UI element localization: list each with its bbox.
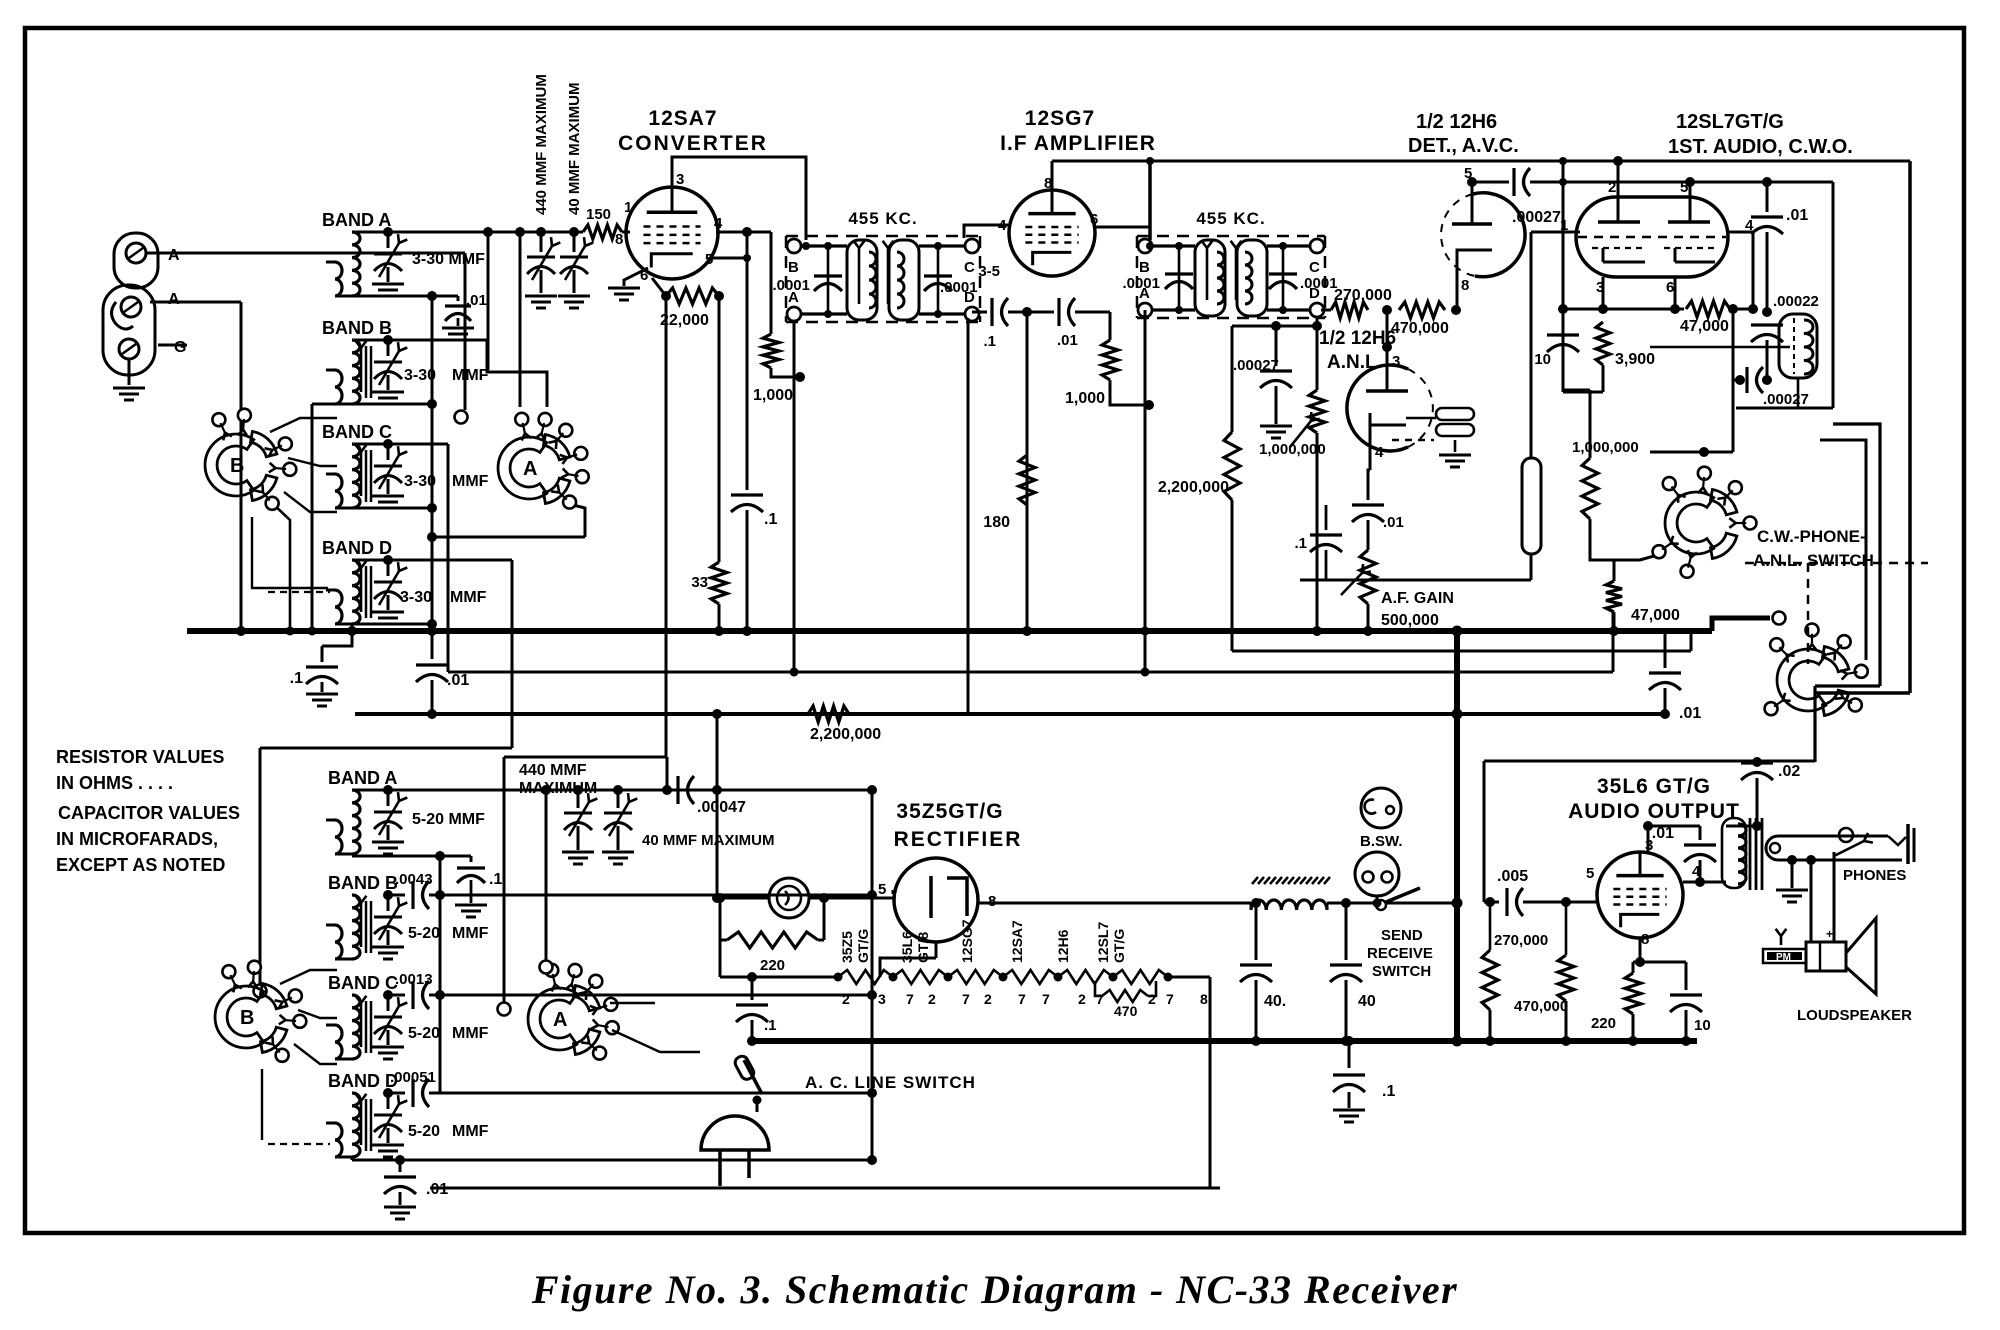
svg-text:.01: .01 bbox=[1679, 705, 1701, 722]
svg-text:2,200,000: 2,200,000 bbox=[810, 726, 881, 743]
svg-text:470,000: 470,000 bbox=[1391, 320, 1449, 337]
svg-text:B: B bbox=[1139, 259, 1150, 276]
svg-text:1/2 12H6: 1/2 12H6 bbox=[1416, 111, 1497, 133]
svg-text:35Z5: 35Z5 bbox=[839, 931, 855, 963]
svg-text:33: 33 bbox=[691, 574, 708, 591]
svg-text:SEND: SEND bbox=[1381, 927, 1423, 944]
svg-text:B: B bbox=[788, 259, 799, 276]
svg-text:DET., A.V.C.: DET., A.V.C. bbox=[1408, 135, 1519, 157]
svg-text:12SL7: 12SL7 bbox=[1095, 922, 1111, 963]
svg-text:B.SW.: B.SW. bbox=[1360, 833, 1403, 850]
svg-text:MMF: MMF bbox=[452, 473, 489, 490]
svg-text:3-5: 3-5 bbox=[978, 263, 1000, 280]
svg-text:440 MMF: 440 MMF bbox=[519, 762, 587, 779]
svg-text:35Z5GT/G: 35Z5GT/G bbox=[896, 800, 1003, 823]
svg-text:500,000: 500,000 bbox=[1381, 612, 1439, 629]
svg-text:LOUDSPEAKER: LOUDSPEAKER bbox=[1797, 1007, 1912, 1024]
svg-text:.0001: .0001 bbox=[940, 279, 978, 296]
svg-text:2: 2 bbox=[984, 991, 992, 1007]
svg-text:BAND D: BAND D bbox=[328, 1071, 398, 1091]
svg-text:A.N.L. SWITCH: A.N.L. SWITCH bbox=[1753, 551, 1874, 570]
svg-text:.1: .1 bbox=[983, 333, 996, 350]
svg-text:5-20 MMF: 5-20 MMF bbox=[412, 811, 485, 828]
svg-text:3: 3 bbox=[676, 171, 684, 188]
svg-text:3-30 MMF: 3-30 MMF bbox=[412, 251, 485, 268]
svg-text:BAND C: BAND C bbox=[322, 422, 392, 442]
svg-text:1/2 12H6: 1/2 12H6 bbox=[1319, 328, 1396, 349]
svg-text:2,200,000: 2,200,000 bbox=[1158, 479, 1229, 496]
svg-text:C: C bbox=[1309, 259, 1320, 276]
svg-text:5: 5 bbox=[878, 881, 886, 898]
svg-text:5: 5 bbox=[1464, 165, 1472, 182]
svg-text:MMF: MMF bbox=[452, 1025, 489, 1042]
svg-text:C: C bbox=[964, 259, 975, 276]
svg-text:7: 7 bbox=[906, 991, 914, 1007]
svg-text:.1: .1 bbox=[489, 871, 502, 888]
svg-text:BAND D: BAND D bbox=[322, 538, 392, 558]
svg-text:220: 220 bbox=[1591, 1015, 1616, 1032]
svg-text:12SG7: 12SG7 bbox=[1025, 107, 1095, 130]
svg-text:A: A bbox=[523, 458, 537, 480]
svg-text:A: A bbox=[168, 291, 180, 308]
svg-text:7: 7 bbox=[1018, 991, 1026, 1007]
svg-text:40.: 40. bbox=[1264, 993, 1286, 1010]
svg-text:7: 7 bbox=[962, 991, 970, 1007]
svg-text:C.W.-PHONE-: C.W.-PHONE- bbox=[1757, 527, 1866, 546]
svg-text:B: B bbox=[230, 455, 244, 477]
svg-text:A. C. LINE SWITCH: A. C. LINE SWITCH bbox=[805, 1073, 976, 1092]
svg-text:.01: .01 bbox=[466, 292, 487, 309]
svg-text:1: 1 bbox=[624, 199, 632, 216]
svg-text:12SA7: 12SA7 bbox=[648, 107, 717, 130]
svg-text:MMF: MMF bbox=[452, 1123, 489, 1140]
svg-text:455 KC.: 455 KC. bbox=[848, 209, 917, 228]
svg-text:4: 4 bbox=[1375, 444, 1384, 461]
svg-text:455 KC.: 455 KC. bbox=[1196, 209, 1265, 228]
svg-text:GT/G: GT/G bbox=[1111, 929, 1127, 963]
svg-text:.00027: .00027 bbox=[1233, 357, 1279, 374]
svg-text:.01: .01 bbox=[1652, 825, 1674, 842]
svg-text:MMF: MMF bbox=[450, 589, 487, 606]
svg-text:CAPACITOR VALUES: CAPACITOR VALUES bbox=[58, 803, 240, 823]
svg-text:180: 180 bbox=[983, 514, 1010, 531]
svg-text:G: G bbox=[174, 339, 186, 356]
svg-text:BAND B: BAND B bbox=[322, 318, 392, 338]
svg-text:8: 8 bbox=[615, 231, 623, 248]
svg-text:MMF: MMF bbox=[452, 367, 489, 384]
svg-text:.1: .1 bbox=[1294, 535, 1307, 552]
svg-text:2: 2 bbox=[928, 991, 936, 1007]
svg-text:.1: .1 bbox=[764, 1017, 777, 1034]
svg-text:12SL7GT/G: 12SL7GT/G bbox=[1676, 111, 1784, 133]
svg-text:MMF: MMF bbox=[452, 925, 489, 942]
svg-text:2: 2 bbox=[842, 991, 850, 1007]
svg-text:BAND C: BAND C bbox=[328, 973, 398, 993]
svg-text:4: 4 bbox=[714, 215, 723, 232]
svg-text:1,000: 1,000 bbox=[753, 387, 793, 404]
svg-text:A: A bbox=[553, 1009, 567, 1031]
svg-text:I.F AMPLIFIER: I.F AMPLIFIER bbox=[1000, 132, 1156, 155]
svg-text:7: 7 bbox=[1096, 991, 1104, 1007]
svg-text:40 MMF MAXIMUM: 40 MMF MAXIMUM bbox=[642, 832, 775, 849]
svg-text:.01: .01 bbox=[1057, 332, 1078, 349]
svg-text:440 MMF MAXIMUM: 440 MMF MAXIMUM bbox=[533, 74, 550, 215]
svg-text:47,000: 47,000 bbox=[1680, 318, 1729, 335]
svg-text:.00047: .00047 bbox=[697, 799, 746, 816]
svg-text:.00022: .00022 bbox=[1773, 293, 1819, 310]
svg-text:BAND B: BAND B bbox=[328, 873, 398, 893]
svg-text:.00027: .00027 bbox=[1763, 391, 1809, 408]
svg-text:12SA7: 12SA7 bbox=[1009, 920, 1025, 963]
svg-text:5-20: 5-20 bbox=[408, 1025, 440, 1042]
svg-text:.1: .1 bbox=[1382, 1083, 1395, 1100]
svg-text:CONVERTER: CONVERTER bbox=[618, 132, 768, 155]
svg-text:+: + bbox=[1826, 927, 1833, 941]
svg-text:.1: .1 bbox=[290, 670, 303, 687]
svg-text:3: 3 bbox=[878, 991, 886, 1007]
svg-text:1,000,000: 1,000,000 bbox=[1572, 439, 1639, 456]
svg-text:.01: .01 bbox=[447, 672, 469, 689]
svg-text:RESISTOR VALUES: RESISTOR VALUES bbox=[56, 747, 224, 767]
svg-text:7: 7 bbox=[1042, 991, 1050, 1007]
svg-text:270,000: 270,000 bbox=[1334, 287, 1392, 304]
svg-text:40 MMF MAXIMUM: 40 MMF MAXIMUM bbox=[566, 83, 583, 216]
svg-text:.0001: .0001 bbox=[1300, 275, 1338, 292]
svg-text:12H6: 12H6 bbox=[1055, 929, 1071, 963]
svg-text:.005: .005 bbox=[1497, 868, 1528, 885]
svg-text:5-20: 5-20 bbox=[408, 1123, 440, 1140]
svg-text:EXCEPT AS NOTED: EXCEPT AS NOTED bbox=[56, 855, 225, 875]
svg-text:Figure No. 3. Schematic Diagr: Figure No. 3. Schematic Diagram - NC-33 … bbox=[531, 1267, 1458, 1312]
svg-text:.01: .01 bbox=[1383, 514, 1404, 531]
svg-text:.0001: .0001 bbox=[772, 277, 810, 294]
svg-text:PM: PM bbox=[1776, 952, 1791, 963]
svg-text:MAXIMUM: MAXIMUM bbox=[519, 780, 597, 797]
svg-text:AUDIO OUTPUT: AUDIO OUTPUT bbox=[1568, 800, 1740, 823]
svg-text:PHONES: PHONES bbox=[1843, 867, 1906, 884]
svg-text:6: 6 bbox=[1666, 279, 1674, 296]
svg-text:.02: .02 bbox=[1778, 763, 1800, 780]
svg-text:BAND A: BAND A bbox=[328, 768, 397, 788]
svg-text:2: 2 bbox=[1608, 179, 1616, 196]
svg-text:A: A bbox=[168, 247, 180, 264]
svg-text:10: 10 bbox=[1694, 1017, 1711, 1034]
svg-text:5: 5 bbox=[1680, 179, 1688, 196]
svg-text:47,000: 47,000 bbox=[1631, 607, 1680, 624]
svg-text:8: 8 bbox=[1200, 991, 1208, 1007]
svg-text:5: 5 bbox=[1586, 865, 1594, 882]
svg-text:RECTIFIER: RECTIFIER bbox=[894, 828, 1023, 851]
svg-text:35L6 GT/G: 35L6 GT/G bbox=[1597, 775, 1711, 798]
svg-text:5-20: 5-20 bbox=[408, 925, 440, 942]
svg-text:SWITCH: SWITCH bbox=[1372, 963, 1431, 980]
svg-text:3-30: 3-30 bbox=[400, 589, 432, 606]
svg-text:7: 7 bbox=[1166, 991, 1174, 1007]
svg-text:6: 6 bbox=[1090, 211, 1098, 228]
svg-text:12SG7: 12SG7 bbox=[959, 919, 975, 963]
svg-text:270,000: 270,000 bbox=[1494, 932, 1548, 949]
svg-text:.0001: .0001 bbox=[1122, 275, 1160, 292]
svg-text:10: 10 bbox=[1534, 351, 1551, 368]
svg-text:470,000: 470,000 bbox=[1514, 998, 1568, 1015]
svg-text:A.F. GAIN: A.F. GAIN bbox=[1381, 590, 1454, 607]
svg-text:1,000: 1,000 bbox=[1065, 390, 1105, 407]
svg-text:3,900: 3,900 bbox=[1615, 351, 1655, 368]
svg-text:.00027: .00027 bbox=[1512, 209, 1561, 226]
svg-text:.01: .01 bbox=[1786, 207, 1808, 224]
svg-text:150: 150 bbox=[586, 206, 611, 223]
svg-text:470: 470 bbox=[1114, 1003, 1138, 1019]
svg-text:BAND A: BAND A bbox=[322, 210, 391, 230]
svg-text:8: 8 bbox=[1461, 277, 1469, 294]
svg-text:RECEIVE: RECEIVE bbox=[1367, 945, 1433, 962]
svg-text:B: B bbox=[240, 1007, 254, 1029]
svg-text:IN MICROFARADS,: IN MICROFARADS, bbox=[56, 829, 218, 849]
svg-text:4: 4 bbox=[998, 217, 1007, 234]
svg-text:40: 40 bbox=[1358, 993, 1376, 1010]
svg-text:GT/G: GT/G bbox=[855, 929, 871, 963]
svg-text:8: 8 bbox=[1641, 931, 1649, 948]
svg-text:2: 2 bbox=[1078, 991, 1086, 1007]
svg-text:IN OHMS . . . .: IN OHMS . . . . bbox=[56, 773, 173, 793]
svg-text:1ST. AUDIO, C.W.O.: 1ST. AUDIO, C.W.O. bbox=[1668, 136, 1853, 158]
svg-text:220: 220 bbox=[760, 957, 785, 974]
svg-text:.1: .1 bbox=[764, 511, 777, 528]
